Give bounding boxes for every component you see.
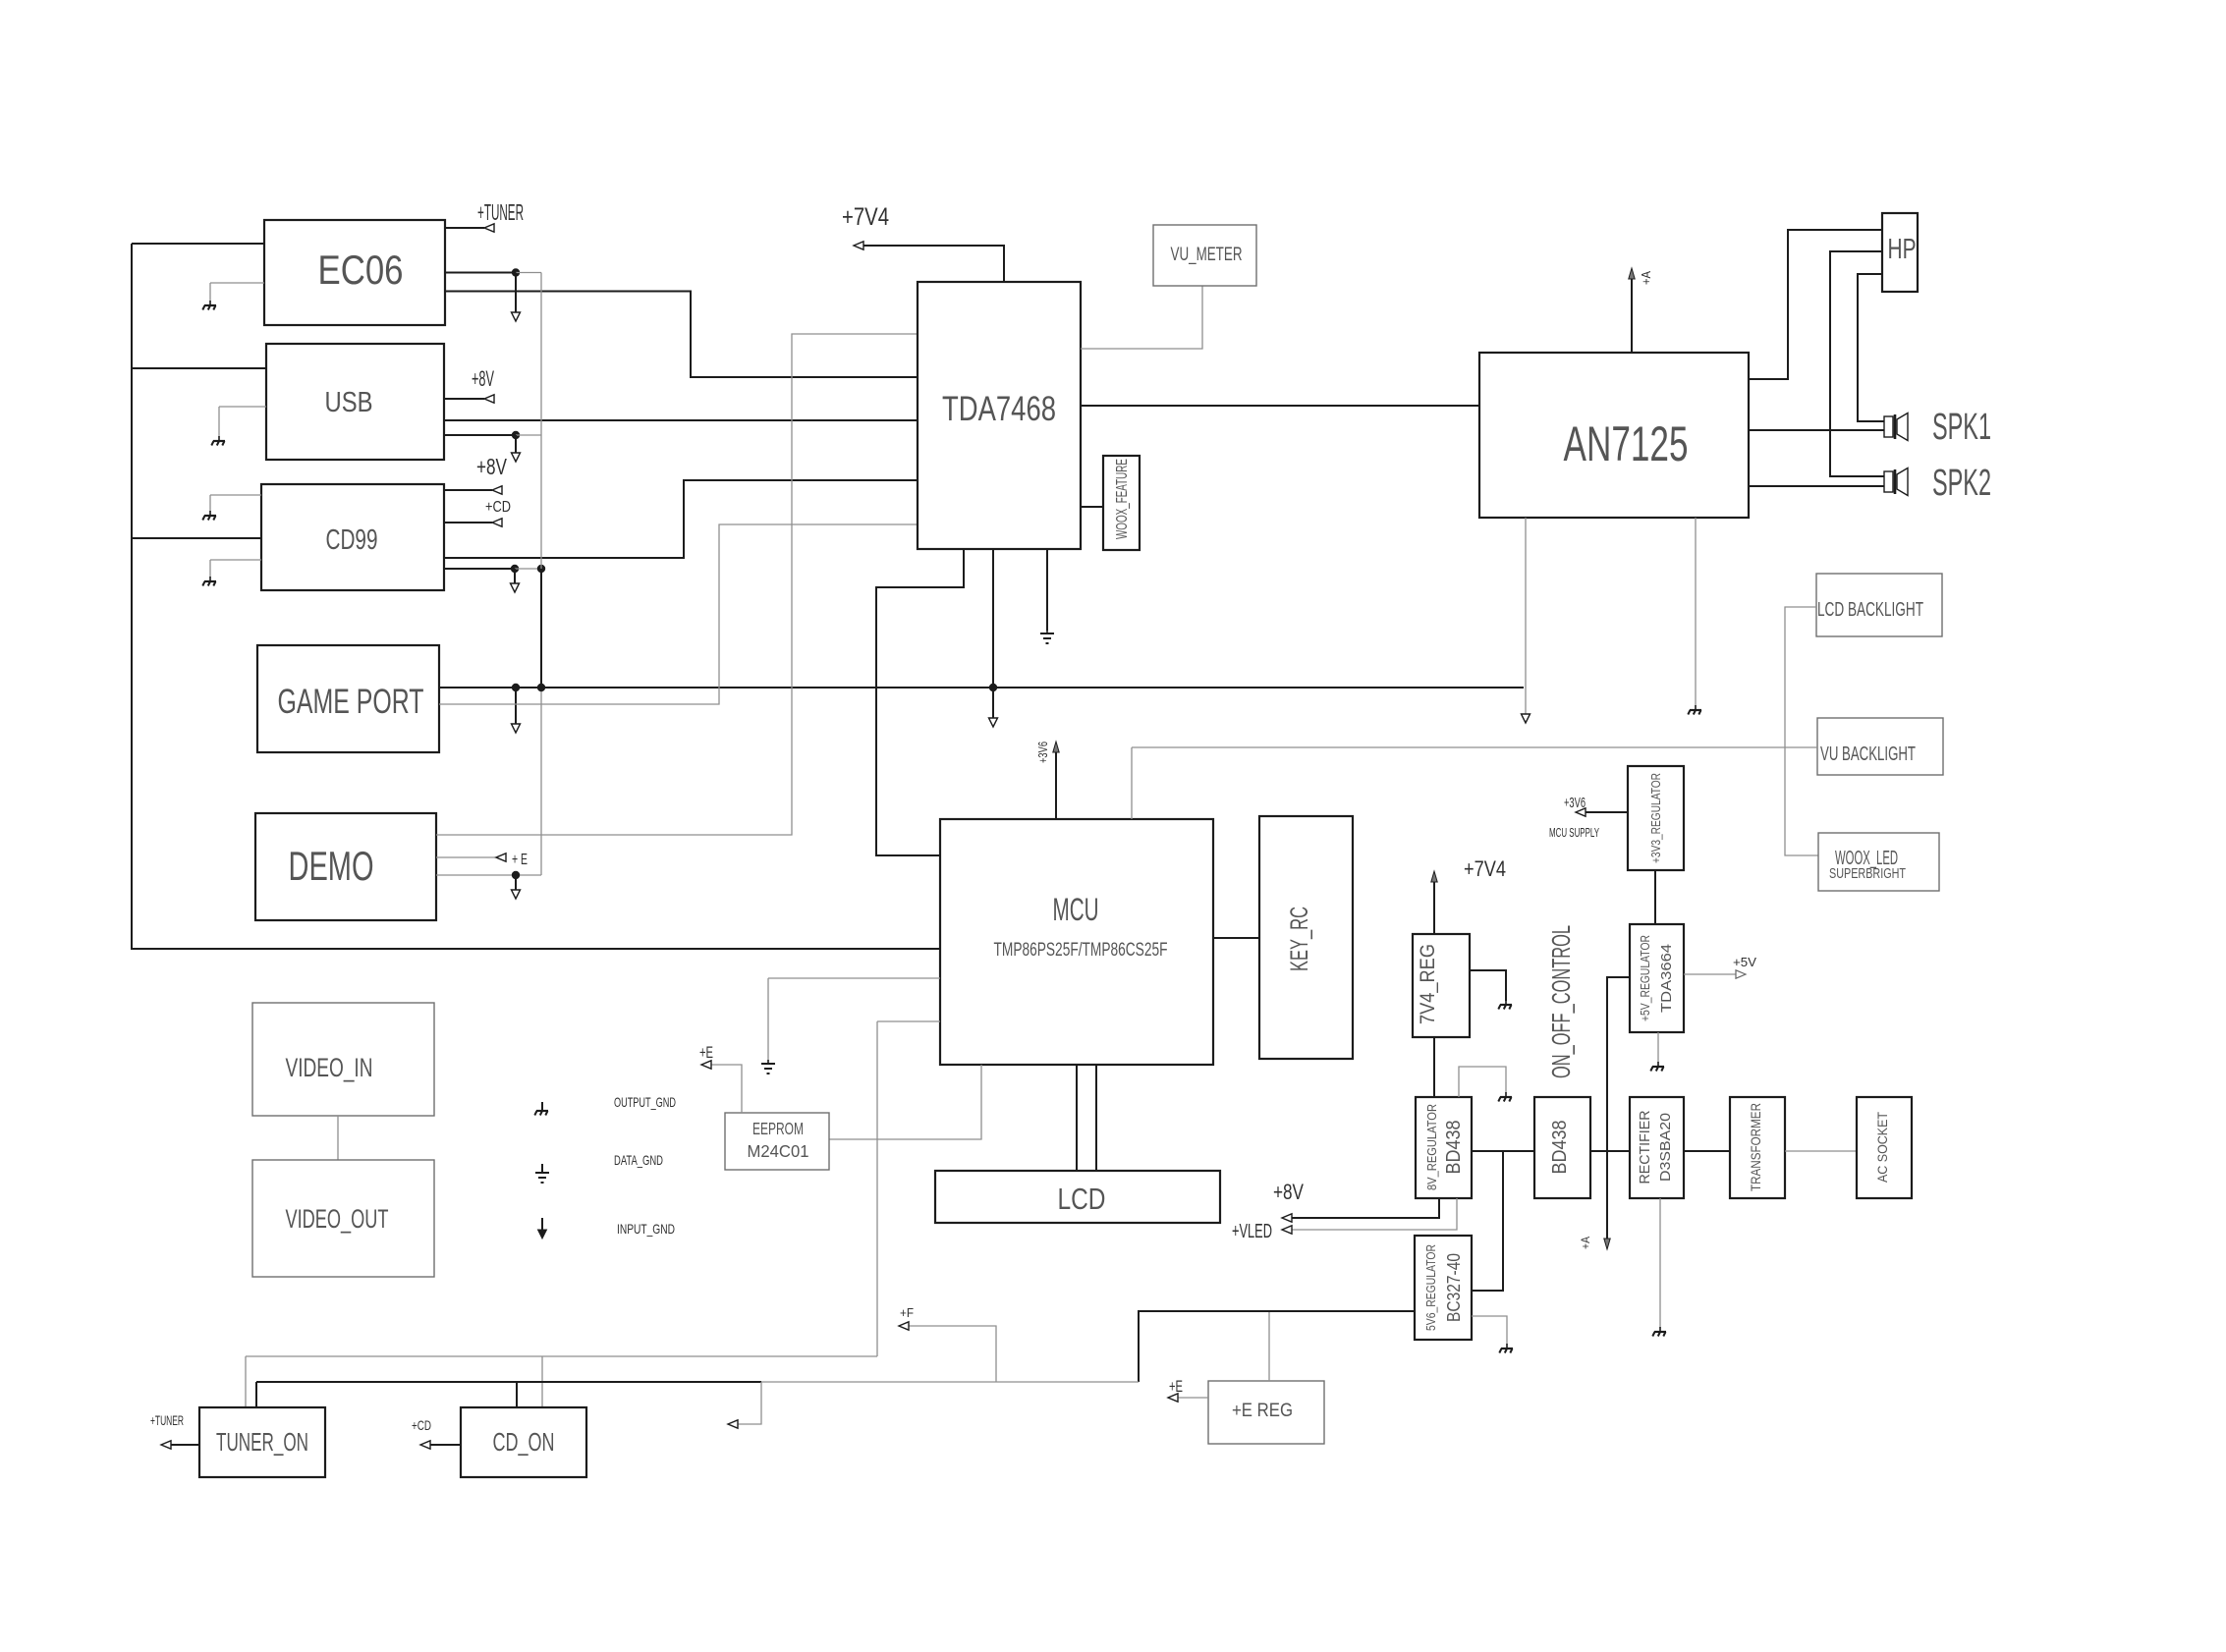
wire 8V_REG top gray bracket gnd bbox=[1459, 1067, 1506, 1097]
arrow +E REG left bbox=[1168, 1394, 1178, 1402]
label +8V CD99 bbox=[476, 454, 507, 479]
arrow +F left bbox=[899, 1322, 909, 1330]
box BD438 bbox=[1534, 1097, 1590, 1198]
wire MCU-LCD pin b bbox=[1095, 1065, 1097, 1171]
wire USB left ground stub bbox=[219, 407, 266, 437]
svg-text:+F: +F bbox=[900, 1305, 914, 1320]
label +CD CD99 bbox=[485, 499, 511, 516]
svg-text:MCU: MCU bbox=[1053, 892, 1099, 927]
svg-text:+7V4: +7V4 bbox=[1464, 856, 1506, 881]
box KEY_RC bbox=[1259, 816, 1353, 1059]
box WOOX_LED SUPERBRIGHT bbox=[1818, 833, 1939, 891]
svg-text:5V6_REGULATOR: 5V6_REGULATOR bbox=[1424, 1244, 1438, 1331]
arrow rail2 left bbox=[728, 1420, 738, 1428]
box AC SOCKET bbox=[1857, 1097, 1912, 1198]
wire TDA3664 left to ON_OFF vertical bbox=[1607, 977, 1630, 1241]
wire ground-arrow stub below EC06 node bbox=[515, 273, 517, 313]
label SPK2 bbox=[1932, 463, 1991, 504]
arrow down open below USB node bbox=[512, 453, 521, 462]
vertical bus x551 gray upper bbox=[540, 273, 542, 570]
svg-text:GAME PORT: GAME PORT bbox=[278, 683, 424, 721]
wire stub below USB node bbox=[515, 435, 517, 453]
svg-text:+CD: +CD bbox=[485, 499, 511, 516]
svg-text:+E REG: +E REG bbox=[1232, 1401, 1293, 1421]
box EC06 bbox=[264, 220, 445, 325]
svg-text:EC06: EC06 bbox=[318, 247, 404, 293]
wire +E REG arrow bbox=[1175, 1397, 1208, 1399]
svg-text:EEPROM: EEPROM bbox=[752, 1119, 804, 1138]
node dot EC06 pin1 bbox=[512, 268, 520, 276]
svg-text:BD438: BD438 bbox=[1443, 1121, 1465, 1175]
wire GAME PORT pin1 long to AN7125 area bbox=[439, 687, 1524, 688]
wire 7V4_REG up arrow bbox=[1433, 882, 1435, 934]
label +VLED bbox=[1232, 1221, 1272, 1242]
wire USB +8V bbox=[444, 398, 484, 400]
label +F bbox=[900, 1305, 914, 1320]
wire +3V6 arrow from 3V3reg bbox=[1584, 811, 1628, 813]
ground chassis 8V_REG bbox=[1498, 1092, 1512, 1102]
box VU BACKLIGHT bbox=[1817, 718, 1943, 775]
svg-text:VIDEO_OUT: VIDEO_OUT bbox=[286, 1204, 389, 1234]
wire DEMO pin1 to TDA7468 bbox=[436, 334, 918, 835]
label +E REG small bbox=[1169, 1377, 1183, 1396]
wire TDA bottom pin2 bbox=[992, 549, 994, 718]
wire +E REG top pin bbox=[1268, 1312, 1270, 1381]
box VIDEO_OUT bbox=[252, 1160, 434, 1277]
wire AN7125 to SPK1 bbox=[1749, 429, 1884, 431]
wire AN7125 to SPK2 bbox=[1749, 485, 1884, 487]
svg-text:+E: +E bbox=[1169, 1377, 1183, 1396]
wire DEMO pin3 bbox=[436, 874, 541, 876]
wire rail2 drop TUNER_ON bbox=[255, 1382, 257, 1407]
ground earth below +E bbox=[761, 1060, 775, 1074]
arrow +3V6 up narrow bbox=[1053, 742, 1059, 752]
svg-text:WOOX_FEATURE: WOOX_FEATURE bbox=[1114, 459, 1131, 539]
ground chassis RECTIFIER bbox=[1652, 1327, 1666, 1337]
arrow +8V CD99 bbox=[492, 486, 502, 494]
svg-text:+E: +E bbox=[699, 1043, 713, 1062]
label DATA_GND bbox=[614, 1152, 663, 1168]
ground chassis OUTPUT_GND bbox=[534, 1102, 548, 1116]
wire MCU top pin2 to rail bbox=[1131, 747, 1133, 819]
wire GAME PORT pin2 to TDA7468 bbox=[439, 524, 918, 704]
wire MCU-LCD pin a bbox=[1076, 1065, 1078, 1171]
wire BD438 to RECTIFIER bbox=[1590, 1150, 1630, 1152]
wire USB pin3 to node bbox=[444, 434, 516, 436]
arrow down open below CD99 node bbox=[511, 583, 520, 592]
box WOOX_FEATURE bbox=[1103, 456, 1140, 550]
label +5V bbox=[1733, 955, 1756, 969]
speaker SPK1 bbox=[1884, 413, 1908, 441]
speaker SPK2 bbox=[1884, 468, 1908, 496]
wire rail2 end arrow bbox=[735, 1382, 761, 1424]
label ON_OFF_CONTROL rotated bbox=[1546, 925, 1576, 1078]
arrow down open TDA pin2 bbox=[989, 718, 998, 727]
wire rail to USB left bbox=[132, 367, 266, 369]
svg-text:+3V6: +3V6 bbox=[1035, 742, 1050, 763]
svg-text:+7V4: +7V4 bbox=[842, 203, 889, 231]
wire 8V_REG bottom +8V bbox=[1287, 1198, 1439, 1218]
wire stub below GP node bbox=[515, 688, 517, 724]
wire 7V4_REG right gnd bbox=[1470, 970, 1506, 1001]
label +A rotated bbox=[1639, 271, 1653, 285]
wire USB pin2 to TDA7468 bbox=[444, 419, 918, 421]
arrow +VLED left bbox=[1282, 1226, 1292, 1234]
svg-text:OUTPUT_GND: OUTPUT_GND bbox=[614, 1094, 676, 1110]
wire +TUNER arrow bbox=[169, 1444, 199, 1446]
node dot GP c (TDA bottom pin) bbox=[989, 684, 997, 691]
ground chassis AN7125 bbox=[1688, 705, 1701, 715]
svg-text:USB: USB bbox=[325, 387, 373, 418]
box LCD BACKLIGHT bbox=[1816, 574, 1942, 636]
wire EC06 pin2 route to TDA7468 bbox=[445, 292, 918, 378]
svg-text:SPK1: SPK1 bbox=[1932, 407, 1991, 448]
label +3V6 MCU rotated bbox=[1035, 742, 1050, 763]
arrow +TUNER bbox=[484, 224, 494, 232]
wire +5V arrow bbox=[1684, 973, 1738, 975]
wire +F from rail2 bbox=[906, 1326, 996, 1382]
wire AN7125 +A top pin bbox=[1631, 279, 1633, 353]
ground chassis 5V6 bbox=[1499, 1344, 1513, 1353]
svg-text:RECTIFIER: RECTIFIER bbox=[1637, 1110, 1653, 1184]
wire node to vertical bus x551 bbox=[516, 272, 541, 274]
svg-text:D3SBA20: D3SBA20 bbox=[1657, 1113, 1674, 1182]
arrow +CD CD99 bbox=[492, 519, 502, 526]
wire node to bus x551 bbox=[516, 434, 541, 436]
ground chassis CD99 lower bbox=[202, 577, 216, 586]
svg-text:SPK2: SPK2 bbox=[1932, 463, 1991, 504]
wire MCU to VU BACKLIGHT long bbox=[1132, 746, 1817, 748]
svg-text:+A: +A bbox=[1579, 1237, 1592, 1249]
gray rail2 extension bbox=[761, 1381, 1139, 1383]
wire MCU bottom to EEPROM bbox=[829, 1065, 981, 1139]
label +8V USB bbox=[472, 366, 494, 391]
arrow +TUNER left bottom bbox=[161, 1441, 171, 1449]
label +8V big bbox=[1273, 1180, 1304, 1204]
label +E EEPROM bbox=[699, 1043, 713, 1062]
label MCU SUPPLY bbox=[1549, 825, 1599, 840]
wire rail to CD99 left bbox=[132, 537, 261, 539]
arrow +8V left bbox=[1282, 1214, 1292, 1222]
label INPUT_GND bbox=[617, 1221, 675, 1237]
wire TDA to WOOX_FEATURE bbox=[1081, 506, 1103, 508]
wire 3V3reg to TDA3664 bbox=[1654, 870, 1656, 924]
node dot CD99 pin2 a bbox=[511, 565, 519, 573]
box MCU bbox=[940, 819, 1213, 1065]
wire DEMO +E arrow bbox=[436, 856, 496, 858]
wire 8V_REG to BD438 bbox=[1472, 1150, 1534, 1152]
node dot CD99 pin2 b bbox=[537, 565, 545, 573]
svg-text:DATA_GND: DATA_GND bbox=[614, 1152, 663, 1168]
svg-text:TDA3664: TDA3664 bbox=[1658, 944, 1675, 1013]
wire rail to EC06 left bbox=[132, 243, 264, 245]
wire CD99 pin2 to node bbox=[444, 568, 515, 570]
svg-text:+8V: +8V bbox=[472, 366, 494, 391]
wire EC06 left ground stub bbox=[210, 283, 264, 302]
svg-text:INPUT_GND: INPUT_GND bbox=[617, 1221, 675, 1237]
wire HP to SPK1 top bbox=[1858, 274, 1884, 421]
wire stub below DEMO node bbox=[515, 875, 517, 890]
box TDA7468 bbox=[918, 282, 1081, 549]
arrow +7V4 TDA bbox=[854, 242, 863, 249]
wire RECTIFIER bottom gnd bbox=[1659, 1198, 1661, 1328]
wire 5V6 left to rail bbox=[1139, 1311, 1415, 1382]
svg-text:7V4_REG: 7V4_REG bbox=[1417, 944, 1439, 1024]
box EEPROM M24C01 bbox=[725, 1113, 829, 1170]
svg-text:LCD: LCD bbox=[1058, 1182, 1106, 1216]
wire CD99 +CD bbox=[444, 522, 492, 523]
ground chassis TDA3664 bbox=[1650, 1062, 1664, 1072]
wire TDA3664 bottom gnd bbox=[1657, 1032, 1659, 1063]
box HP bbox=[1882, 213, 1918, 292]
label SPK1 bbox=[1932, 407, 1991, 448]
box CD_ON bbox=[461, 1407, 586, 1477]
ground earth TDA bbox=[1040, 630, 1054, 643]
wire CD99 +8V bbox=[444, 489, 492, 491]
wire TDA to VU_METER bbox=[1081, 286, 1202, 349]
wire LCD BACKLIGHT to WOOX_LED rail bbox=[1785, 607, 1818, 855]
box TUNER_ON bbox=[199, 1407, 325, 1477]
arrow +3V6 left bbox=[1576, 808, 1586, 816]
box GAME PORT bbox=[257, 645, 439, 752]
svg-text:+8V: +8V bbox=[1273, 1180, 1304, 1204]
ground chassis CD99 upper bbox=[202, 511, 216, 521]
wire MCU left +E gray bbox=[768, 978, 940, 1061]
box +3V3_REGULATOR bbox=[1628, 766, 1684, 870]
label + E DEMO bbox=[512, 852, 528, 868]
vertical bus x551 gray lower bbox=[540, 688, 542, 875]
wire HP to SPK2 top bbox=[1830, 251, 1884, 476]
box 8V_REGULATOR BD438 bbox=[1416, 1097, 1472, 1198]
svg-text:AN7125: AN7125 bbox=[1564, 416, 1689, 471]
wire AN7125 bottom pin2 gnd bbox=[1695, 518, 1697, 706]
arrow +7V4 up narrow bbox=[1431, 871, 1437, 882]
svg-text:+3V3_REGULATOR: +3V3_REGULATOR bbox=[1648, 773, 1663, 863]
wire AN7125 to HP bbox=[1749, 230, 1882, 379]
arrow down open below GP node bbox=[512, 724, 521, 733]
wire MCU left to bottom rail bbox=[877, 1021, 940, 1356]
arrow +5V right bbox=[1736, 970, 1746, 978]
box RECTIFIER D3SBA20 bbox=[1630, 1097, 1684, 1198]
node dot DEMO pin3 bbox=[512, 871, 520, 879]
box VU_METER bbox=[1153, 225, 1256, 286]
svg-text:ON_OFF_CONTROL: ON_OFF_CONTROL bbox=[1546, 925, 1576, 1078]
label +3V6 supply bbox=[1564, 795, 1586, 811]
svg-text:AC SOCKET: AC SOCKET bbox=[1874, 1112, 1890, 1183]
wire AN7125 bottom pin1 with arrow bbox=[1525, 518, 1527, 714]
left bus rail (vertical + bottom run to MCU) bbox=[132, 244, 940, 949]
svg-text:+TUNER: +TUNER bbox=[150, 1412, 184, 1428]
arrow +E EEPROM bbox=[701, 1061, 711, 1069]
label +7V4 TDA bbox=[842, 203, 889, 231]
wire stub below CD99 node bbox=[514, 569, 516, 583]
vertical bus x551 black mid bbox=[540, 569, 542, 688]
svg-text:VU BACKLIGHT: VU BACKLIGHT bbox=[1820, 743, 1916, 765]
wire CD99 pin1 to TDA7468 bbox=[444, 480, 918, 558]
svg-text:CD_ON: CD_ON bbox=[493, 1427, 555, 1457]
ground chassis 7V4_REG bbox=[1498, 1000, 1512, 1010]
box +5V_REGULATOR TDA3664 bbox=[1630, 924, 1684, 1032]
label OUTPUT_GND bbox=[614, 1094, 676, 1110]
svg-text:DEMO: DEMO bbox=[289, 843, 374, 889]
arrow down open below DEMO node bbox=[512, 890, 521, 899]
box DEMO bbox=[255, 813, 436, 920]
svg-text:CD99: CD99 bbox=[326, 524, 378, 556]
box 7V4_REG bbox=[1413, 934, 1470, 1037]
node dot USB pin3 bbox=[512, 431, 520, 439]
arrow + E DEMO bbox=[496, 854, 506, 861]
wire rail drop TUNER_ON bbox=[245, 1356, 247, 1407]
wire TDA7468 +7V4 top pin bbox=[860, 246, 1004, 282]
svg-text:LCD BACKLIGHT: LCD BACKLIGHT bbox=[1817, 599, 1923, 621]
box VIDEO_IN bbox=[252, 1003, 434, 1116]
ground chassis USB bbox=[211, 436, 225, 446]
node dot GP b bbox=[537, 684, 545, 691]
wire EC06 +TUNER bbox=[445, 227, 484, 229]
box TRANSFORMER bbox=[1730, 1097, 1785, 1198]
svg-text:+A: +A bbox=[1639, 271, 1653, 285]
svg-text:+VLED: +VLED bbox=[1232, 1221, 1272, 1242]
wire 5V6 right gnd bbox=[1472, 1316, 1507, 1345]
wire TDA7468 to AN7125 bbox=[1081, 405, 1479, 407]
svg-text:TMP86PS25F/TMP86CS25F: TMP86PS25F/TMP86CS25F bbox=[994, 940, 1168, 961]
wire TRANSFORMER to AC SOCKET bbox=[1785, 1150, 1857, 1152]
svg-text:+CD: +CD bbox=[412, 1417, 431, 1433]
wire junction down to 5V6 bbox=[1472, 1151, 1503, 1291]
gray rail to TUNER_ON/CD_ON tops bbox=[246, 1355, 877, 1357]
svg-text:BC327-40: BC327-40 bbox=[1444, 1253, 1464, 1322]
wire CD99 node link bbox=[515, 568, 541, 570]
wire 7V4_REG to 8V_REG bbox=[1433, 1037, 1435, 1097]
box CD99 bbox=[261, 484, 444, 590]
svg-text:+ E: + E bbox=[512, 852, 528, 868]
svg-text:TRANSFORMER: TRANSFORMER bbox=[1748, 1103, 1763, 1191]
svg-text:VU_METER: VU_METER bbox=[1171, 245, 1243, 265]
arrow down open AN pin1 bbox=[1522, 714, 1530, 723]
wire 8V_REG bottom +VLED bbox=[1287, 1198, 1457, 1230]
black rail2 bbox=[256, 1381, 761, 1383]
wire CD99 left ground stub upper bbox=[210, 495, 261, 512]
node dot GP a bbox=[512, 684, 520, 691]
label +A rotated bottom bbox=[1579, 1237, 1592, 1249]
svg-text:+TUNER: +TUNER bbox=[477, 199, 524, 225]
label +TUNER bbox=[477, 199, 524, 225]
wire EEPROM +E bbox=[706, 1065, 742, 1113]
box USB bbox=[266, 344, 444, 460]
svg-text:M24C01: M24C01 bbox=[748, 1141, 809, 1161]
svg-text:HP: HP bbox=[1888, 234, 1917, 265]
svg-text:BD438: BD438 bbox=[1549, 1121, 1571, 1175]
svg-text:8V_REGULATOR: 8V_REGULATOR bbox=[1425, 1104, 1439, 1190]
svg-text:+3V6: +3V6 bbox=[1564, 795, 1586, 811]
svg-text:TDA7468: TDA7468 bbox=[942, 390, 1056, 428]
svg-text:+5V: +5V bbox=[1733, 955, 1756, 969]
svg-text:VIDEO_IN: VIDEO_IN bbox=[286, 1053, 373, 1082]
wire rail2 drop CD_ON bbox=[516, 1382, 518, 1407]
ground arrow INPUT_GND bbox=[538, 1218, 547, 1239]
label +CD bottom bbox=[412, 1417, 431, 1433]
wire MCU +3V6 top pin bbox=[1055, 752, 1057, 819]
arrow down open below EC06 node bbox=[512, 312, 521, 321]
wire VIDEO_IN to VIDEO_OUT bbox=[337, 1116, 339, 1160]
box +E REG bbox=[1208, 1381, 1324, 1444]
box AN7125 bbox=[1479, 353, 1749, 518]
box LCD bbox=[935, 1171, 1220, 1223]
svg-text:MCU SUPPLY: MCU SUPPLY bbox=[1549, 825, 1599, 840]
ground earth DATA_GND bbox=[535, 1164, 549, 1183]
arrow +CD left bottom bbox=[420, 1441, 430, 1449]
wire RECTIFIER to TRANSFORMER bbox=[1684, 1150, 1730, 1152]
wire TDA bottom pin1 to MCU bbox=[876, 549, 964, 855]
label +TUNER bottom bbox=[150, 1412, 184, 1428]
svg-text:+8V: +8V bbox=[476, 454, 507, 479]
box 5V6_REGULATOR BC327-40 bbox=[1415, 1236, 1472, 1340]
wire MCU to KEY_RC bbox=[1213, 937, 1259, 939]
arrow +8V USB bbox=[484, 395, 494, 403]
wire EC06 pin1 to node bbox=[445, 272, 516, 274]
wire TDA bottom pin3 gnd bbox=[1046, 549, 1048, 631]
wire CD99 left ground stub lower bbox=[210, 560, 261, 578]
arrow +A down narrow bbox=[1604, 1239, 1610, 1249]
arrow +A up narrow bbox=[1629, 268, 1635, 279]
ground chassis EC06 bbox=[202, 301, 216, 310]
wire rail stub CD_ON gray bbox=[541, 1356, 543, 1407]
svg-text:KEY_RC: KEY_RC bbox=[1286, 907, 1313, 971]
svg-text:+5V_REGULATOR: +5V_REGULATOR bbox=[1639, 935, 1652, 1021]
label +7V4 right bbox=[1464, 856, 1506, 881]
wire +CD arrow bbox=[428, 1444, 461, 1446]
svg-text:TUNER_ON: TUNER_ON bbox=[216, 1427, 308, 1457]
svg-text:SUPERBRIGHT: SUPERBRIGHT bbox=[1829, 865, 1906, 882]
